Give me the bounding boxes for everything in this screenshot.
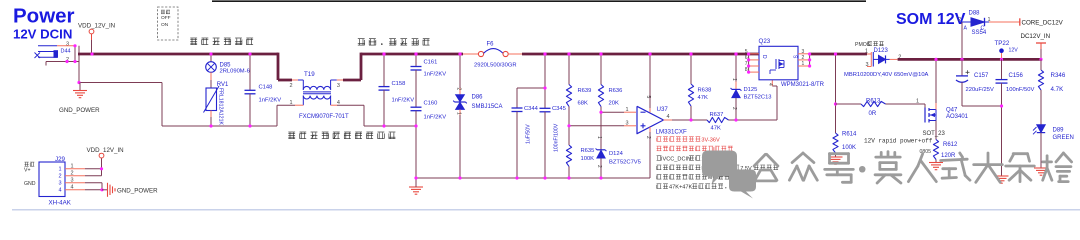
svg-text:R636: R636 (609, 88, 623, 94)
svg-text:4: 4 (71, 185, 74, 191)
svg-text:1nF/2KV: 1nF/2KV (392, 98, 415, 104)
svg-text:GND: GND (24, 181, 36, 187)
svg-text:C148: C148 (259, 84, 273, 90)
svg-text:1: 1 (625, 107, 628, 113)
svg-text:V+: V+ (24, 168, 31, 174)
svg-text:D125: D125 (744, 87, 758, 93)
svg-text:1: 1 (916, 98, 919, 104)
svg-text:SS54: SS54 (972, 30, 987, 36)
svg-text:A: A (964, 26, 968, 32)
svg-text:R613: R613 (866, 98, 881, 104)
svg-text:4: 4 (58, 188, 61, 194)
svg-text:D88: D88 (969, 11, 981, 17)
svg-text:3: 3 (58, 181, 61, 187)
svg-text:VCC_DCIN: VCC_DCIN (663, 156, 692, 162)
svg-text:1nF/2KV: 1nF/2KV (259, 98, 282, 104)
svg-text:GND_POWER: GND_POWER (59, 107, 100, 114)
svg-text:47K: 47K (711, 126, 721, 132)
svg-text:ON: ON (161, 22, 169, 28)
svg-text:3: 3 (71, 178, 74, 184)
svg-text:C344: C344 (524, 106, 539, 112)
svg-text:R639: R639 (578, 88, 592, 94)
svg-text:WPM3021-8/TR: WPM3021-8/TR (781, 82, 825, 88)
svg-text:5: 5 (645, 96, 651, 99)
svg-text:Power: Power (13, 5, 75, 28)
svg-text:3: 3 (66, 41, 69, 47)
svg-text:Q23: Q23 (759, 38, 771, 45)
svg-text:1: 1 (802, 61, 805, 67)
svg-text:2: 2 (645, 136, 651, 139)
svg-text:GND_POWER: GND_POWER (117, 187, 158, 194)
svg-text:R638: R638 (698, 88, 712, 94)
svg-text:1: 1 (988, 17, 991, 23)
svg-text:2: 2 (802, 55, 805, 61)
svg-text:1: 1 (71, 164, 74, 170)
svg-text:FXCM9070F-701T: FXCM9070F-701T (299, 114, 349, 120)
svg-text:20K: 20K (609, 101, 619, 107)
svg-text:AO3401: AO3401 (946, 114, 969, 120)
svg-text:F6: F6 (487, 42, 495, 48)
svg-text:D44: D44 (61, 49, 71, 55)
svg-text:R346: R346 (1051, 72, 1066, 79)
svg-text:12V DCIN: 12V DCIN (13, 27, 72, 42)
svg-text:12V: 12V (1009, 48, 1019, 54)
svg-text:BZT52C7V5: BZT52C7V5 (609, 160, 641, 166)
svg-text:0R: 0R (869, 111, 877, 117)
svg-text:TP22: TP22 (995, 40, 1010, 47)
svg-text:R637: R637 (710, 112, 724, 118)
svg-text:C158: C158 (392, 81, 406, 87)
svg-text:2: 2 (731, 107, 737, 110)
svg-text:3: 3 (865, 62, 868, 68)
svg-text:R614: R614 (842, 132, 857, 138)
svg-text:2920L500/30GR: 2920L500/30GR (474, 62, 517, 68)
svg-text:PMOS: PMOS (855, 42, 871, 48)
svg-text:2: 2 (289, 83, 292, 89)
svg-text:OFF: OFF (161, 15, 171, 21)
svg-text:SMBJ15CA: SMBJ15CA (472, 104, 503, 110)
svg-text:1uF/50V: 1uF/50V (526, 124, 532, 144)
svg-text:47K: 47K (698, 95, 708, 101)
svg-text:120R: 120R (941, 153, 956, 159)
svg-text:XH-4AK: XH-4AK (49, 200, 72, 207)
svg-text:1: 1 (58, 167, 61, 173)
svg-text:CORE_DC12V: CORE_DC12V (1022, 19, 1064, 26)
svg-text:100K: 100K (842, 145, 856, 151)
svg-text:1nF/2KV: 1nF/2KV (424, 114, 447, 120)
svg-text:3V-36V: 3V-36V (701, 137, 720, 143)
svg-text:R612: R612 (943, 142, 958, 148)
svg-text:1: 1 (865, 49, 868, 55)
svg-text:D86: D86 (472, 95, 484, 101)
svg-text:LM331CXF: LM331CXF (656, 129, 688, 136)
svg-text:VDD_12V_IN: VDD_12V_IN (78, 23, 115, 30)
svg-text:4: 4 (667, 114, 670, 120)
svg-text:Q47: Q47 (946, 108, 958, 114)
svg-text:100nF/100V: 100nF/100V (554, 123, 560, 152)
svg-text:1nF/2KV: 1nF/2KV (424, 72, 447, 78)
svg-text:MBR10200DY,40V 650mV@10A: MBR10200DY,40V 650mV@10A (844, 72, 929, 78)
svg-text:T19: T19 (304, 71, 315, 78)
svg-text:47K+47K: 47K+47K (669, 185, 692, 191)
svg-text:2: 2 (456, 88, 462, 91)
svg-text:1: 1 (731, 78, 737, 81)
svg-text:100nF/50V: 100nF/50V (1006, 87, 1034, 93)
svg-text:SOT_23: SOT_23 (923, 131, 946, 137)
svg-text:C157: C157 (974, 73, 989, 79)
svg-text:D89: D89 (1053, 128, 1065, 134)
svg-text:2: 2 (958, 17, 961, 23)
svg-text:4: 4 (767, 83, 773, 86)
svg-text:100K: 100K (581, 156, 595, 162)
svg-text:D124: D124 (609, 151, 624, 157)
svg-text:68K: 68K (578, 101, 588, 107)
svg-text:1: 1 (596, 136, 602, 139)
svg-text:2RL090M-6: 2RL090M-6 (220, 69, 250, 75)
svg-text:3: 3 (802, 49, 805, 55)
svg-text:1: 1 (456, 112, 462, 115)
svg-text:D: D (761, 55, 767, 59)
svg-text:R635: R635 (581, 148, 595, 154)
svg-text:C156: C156 (1009, 73, 1024, 79)
svg-text:DC12V_IN: DC12V_IN (1021, 33, 1051, 40)
svg-text:BZT52C13: BZT52C13 (744, 95, 772, 101)
svg-text:220uF/25V: 220uF/25V (966, 87, 994, 93)
svg-text:SOM 12V: SOM 12V (896, 11, 966, 28)
svg-text:2: 2 (596, 165, 602, 168)
svg-text:VDD_12V_IN: VDD_12V_IN (87, 147, 124, 154)
svg-text:4.7K: 4.7K (1051, 86, 1065, 93)
svg-text:C345: C345 (552, 106, 566, 112)
svg-text:GREEN: GREEN (1053, 135, 1074, 141)
svg-text:C160: C160 (424, 101, 438, 107)
svg-text:2: 2 (71, 171, 74, 177)
svg-text:2: 2 (58, 174, 61, 180)
svg-text:FRL1812A121K: FRL1812A121K (218, 88, 224, 125)
svg-text:3: 3 (625, 121, 628, 127)
svg-text:D123: D123 (874, 48, 889, 54)
svg-text:12V rapid power+off: 12V rapid power+off (864, 138, 933, 145)
svg-text:3: 3 (337, 83, 340, 89)
svg-text:C161: C161 (424, 60, 438, 66)
svg-text:U37: U37 (657, 106, 669, 113)
